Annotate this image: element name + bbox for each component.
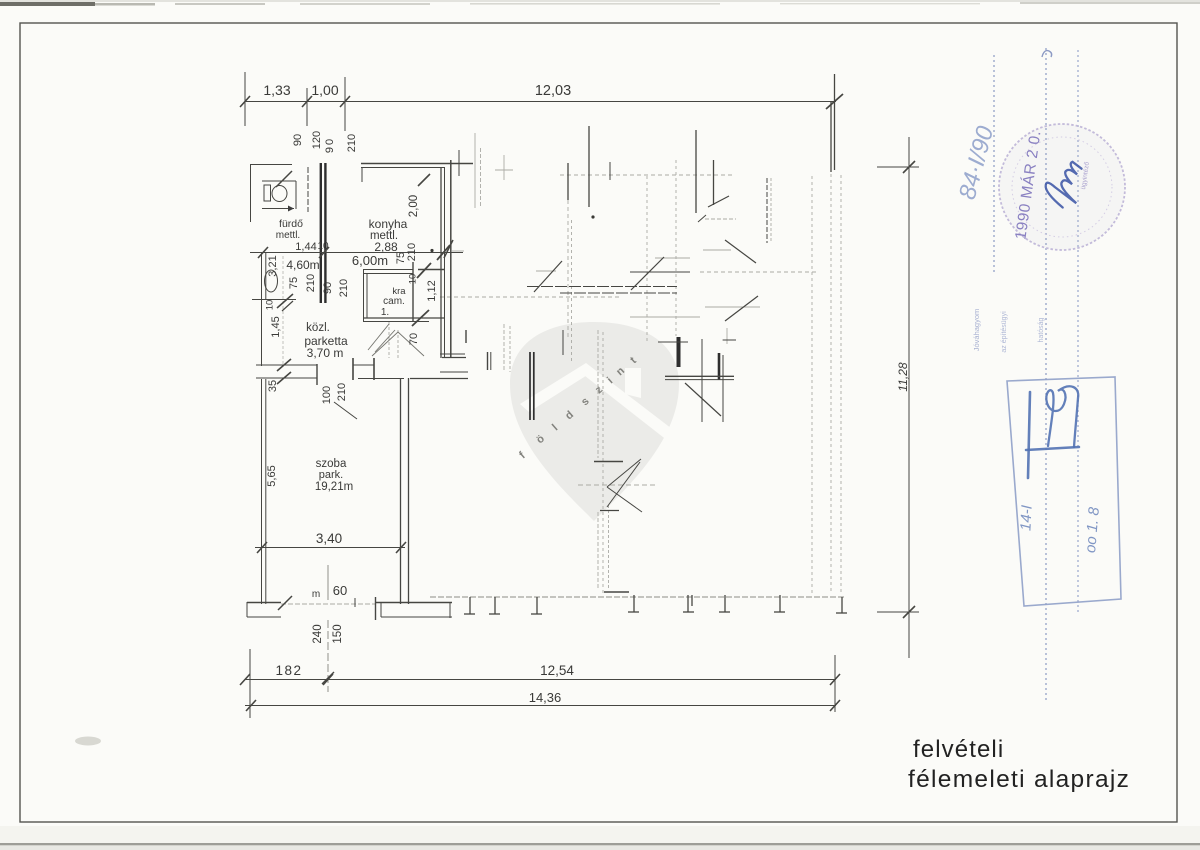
wire faint horizontal y307 xyxy=(705,306,760,308)
szoba top wall stub vertical xyxy=(316,364,318,385)
wire faint vertical x598 lower xyxy=(597,512,599,590)
stamps xyxy=(954,48,1125,700)
tick top x307 xyxy=(302,96,312,107)
szoba bottom wall left inner xyxy=(247,616,281,618)
tick top x835 xyxy=(826,94,843,109)
konyha top wall outer xyxy=(361,163,473,165)
v x563 xyxy=(562,330,564,355)
watermark text foldszint xyxy=(517,355,639,462)
konyha wall slash xyxy=(444,240,453,258)
svg-text:félemeleti alaprajz: félemeleti alaprajz xyxy=(908,766,1130,793)
handwriting big stroke xyxy=(1028,392,1030,478)
tick top x245 xyxy=(240,96,250,107)
svg-text:70: 70 xyxy=(408,333,420,345)
small tick x355 xyxy=(354,598,356,607)
konyha right wall outer xyxy=(450,160,452,358)
mid dark v x713 xyxy=(713,160,715,205)
title block xyxy=(908,736,1130,793)
stairs zigzag xyxy=(372,332,424,356)
svg-text:1,44: 1,44 xyxy=(295,241,316,253)
h y340 right xyxy=(723,339,736,341)
svg-text:m: m xyxy=(312,589,320,600)
szoba left wall inner xyxy=(265,379,267,604)
stub v x375 xyxy=(375,597,377,620)
dimension texts xyxy=(263,82,910,705)
extension top x345 xyxy=(344,77,346,131)
svg-text:3,70 m: 3,70 m xyxy=(307,346,344,360)
right dim dash top xyxy=(877,166,919,168)
szoba bottom wall right inner xyxy=(381,616,452,618)
szoba top wall line1 xyxy=(256,364,317,366)
svg-text:75: 75 xyxy=(288,277,300,289)
round stamp inner ring faint xyxy=(1012,137,1112,237)
wire faint vertical x283 xyxy=(282,256,284,364)
tick szoba top1 xyxy=(277,359,291,371)
tick 340 left xyxy=(257,542,267,553)
wire faint vertical x831 xyxy=(830,174,832,594)
tick b1 x245 xyxy=(240,674,250,685)
watermark pin xyxy=(510,322,679,521)
thick wall left of konyha line1 xyxy=(320,163,322,303)
left wall inner x265 xyxy=(265,253,267,300)
svg-text:210: 210 xyxy=(406,243,418,261)
wire faint vertical x812 xyxy=(811,176,813,594)
svg-text:mettl.: mettl. xyxy=(276,230,300,241)
wall top left bay xyxy=(250,164,292,166)
door slash bath xyxy=(277,294,293,308)
wc bottom line with arrow xyxy=(262,208,294,210)
mid dark v x610 xyxy=(609,162,611,180)
kamra right wall xyxy=(412,262,414,321)
wc right wall xyxy=(295,181,297,209)
svg-text:fürdő: fürdő xyxy=(279,218,303,230)
wire faint h y219 xyxy=(705,218,736,220)
wire faint v x841 xyxy=(840,175,842,593)
svg-text:hatóság: hatóság xyxy=(1038,317,1045,342)
wire faint vertical x676 xyxy=(675,160,677,336)
wire faint vertical x598 xyxy=(597,330,599,458)
svg-text:10: 10 xyxy=(408,274,419,285)
wall segment y269 right xyxy=(418,269,444,271)
round stamp circle xyxy=(999,124,1125,250)
wall h y354 short xyxy=(440,353,465,355)
wire faint horizontal y271 xyxy=(536,270,556,272)
wall y378 right of szoba xyxy=(410,378,468,380)
pin body xyxy=(510,322,679,521)
column t x842 xyxy=(836,597,847,613)
wire center line door szoba lower xyxy=(327,620,329,692)
svg-text:felvételi: felvételi xyxy=(913,736,1004,763)
door diag c2 xyxy=(607,487,642,512)
v x488 xyxy=(487,352,489,370)
svg-text:4,60m: 4,60m xyxy=(286,258,319,272)
wire faint vertical x603 xyxy=(602,332,604,594)
svg-text:1,45: 1,45 xyxy=(270,316,282,337)
right dim tick top xyxy=(903,161,915,173)
h y461 xyxy=(594,461,623,463)
tick top x345 xyxy=(340,96,350,107)
h y510 xyxy=(600,510,619,512)
svg-text:1,12: 1,12 xyxy=(426,280,438,301)
extension top x245 xyxy=(244,72,246,126)
column t x537 xyxy=(531,597,542,614)
stub v x466 xyxy=(465,330,467,343)
kamra left wall xyxy=(363,269,365,321)
tick konyha top xyxy=(418,174,430,186)
wire faint h y272 right xyxy=(700,271,818,273)
door slash wc xyxy=(276,171,292,187)
right dim tick bottom xyxy=(903,606,915,618)
svg-text:Jóváhagyom: Jóváhagyom xyxy=(972,309,981,352)
door slash szoba bottom xyxy=(278,596,292,610)
svg-text:3,21: 3,21 xyxy=(267,255,279,276)
h y342 xyxy=(658,341,688,343)
stub v x374 xyxy=(373,358,375,380)
wall h y357 xyxy=(442,357,466,359)
door diag g xyxy=(725,296,758,321)
svg-text:120: 120 xyxy=(311,131,323,149)
szoba bottom left cap xyxy=(246,602,248,617)
svg-text:3,40: 3,40 xyxy=(316,531,342,546)
svg-text:14-I: 14-I xyxy=(1017,505,1035,532)
tick szoba top2 xyxy=(277,372,291,384)
mid dashed v x767 xyxy=(766,178,768,243)
tick b1 x835 xyxy=(830,674,840,685)
tick b2 x250 xyxy=(246,700,256,711)
wall stub mid xyxy=(353,364,374,366)
toilet cistern xyxy=(264,185,271,201)
thick v x530 xyxy=(529,352,531,420)
wire faint horizontal y251 xyxy=(452,250,464,252)
wire faint vertical x510 xyxy=(509,326,511,372)
stairs diag1 xyxy=(368,324,389,350)
svg-text:konyha: konyha xyxy=(369,217,408,231)
thick v x719 xyxy=(718,353,721,380)
door diag f xyxy=(631,257,664,290)
dimension top line xyxy=(245,101,836,103)
svg-text:210: 210 xyxy=(346,134,358,152)
wc top wall xyxy=(262,180,296,182)
szoba bottom wall right outer xyxy=(375,602,452,604)
svg-text:6,00m: 6,00m xyxy=(352,253,388,268)
tick b2 x835 xyxy=(830,700,840,711)
svg-text:210: 210 xyxy=(305,274,317,292)
wire faint v x771 xyxy=(770,178,772,243)
stub v x353 xyxy=(352,358,354,380)
wire faint vertical x504 xyxy=(503,155,505,180)
wire faint vertical x568 xyxy=(567,200,569,340)
wall y372 right xyxy=(440,371,468,373)
tick y252 x444 xyxy=(437,245,450,260)
stamp box xyxy=(1007,377,1121,606)
svg-text:10: 10 xyxy=(317,241,329,252)
szoba right wall inner xyxy=(408,378,410,604)
tick b1 x328 xyxy=(323,674,333,685)
svg-text:1,33: 1,33 xyxy=(263,82,290,98)
tick 340 right xyxy=(396,542,406,553)
door diag e xyxy=(725,240,756,263)
door diagonal szoba top xyxy=(334,402,357,419)
stub v x381 xyxy=(380,603,382,617)
wire faint horizontal y485 xyxy=(578,484,657,486)
svg-text:cam.: cam. xyxy=(383,296,405,307)
stub v x459 xyxy=(458,150,460,176)
wire faint horizontal y297 xyxy=(440,296,620,298)
wire faint door threshold szoba xyxy=(281,603,375,605)
door diag a xyxy=(534,261,562,292)
svg-text:12,03: 12,03 xyxy=(535,83,571,99)
sink oval xyxy=(265,270,278,292)
mid dark v x589 xyxy=(588,126,590,207)
left wall outer x261 xyxy=(261,253,263,366)
tick y252 x324 xyxy=(319,247,329,258)
faint plan lines xyxy=(281,133,844,692)
svg-text:60: 60 xyxy=(333,583,347,598)
door diag c1 xyxy=(607,459,641,487)
tick center door xyxy=(322,672,334,684)
h y592 xyxy=(604,591,629,593)
wc arrowhead xyxy=(288,206,294,212)
extension top x835 xyxy=(834,74,836,170)
kamra top inner xyxy=(363,273,413,275)
bath divider line xyxy=(252,299,296,301)
dark plan lines xyxy=(240,72,919,718)
wire center line door szoba xyxy=(327,565,329,600)
h y376 double upper xyxy=(665,375,734,377)
wall left edge upper xyxy=(250,164,252,222)
konyha right wall l1 xyxy=(440,167,442,358)
svg-text:1.: 1. xyxy=(381,307,389,318)
extension top x307 xyxy=(306,88,308,126)
szoba top wall line2 xyxy=(256,377,317,379)
dimension line y252 xyxy=(250,252,463,254)
wire faint h y250 xyxy=(703,249,731,251)
h dashed y286 xyxy=(527,286,677,288)
svg-text:11,28: 11,28 xyxy=(896,362,910,391)
svg-text:az építésügyi: az építésügyi xyxy=(1001,311,1008,353)
blue dotted vertical line 3 xyxy=(1077,50,1079,615)
stairs diag2 xyxy=(375,330,395,352)
house roof white cutout right slope xyxy=(580,363,676,441)
svg-text:150: 150 xyxy=(332,624,344,643)
blue dotted vertical line 2 xyxy=(1045,48,1047,700)
column t x725 xyxy=(719,595,730,612)
kamra top outer xyxy=(363,269,413,271)
dimension 340 line xyxy=(255,547,405,549)
column t x634 xyxy=(628,595,639,612)
handwriting underline xyxy=(1026,447,1079,450)
h y272 xyxy=(630,271,690,273)
kamra bottom inner xyxy=(363,321,429,323)
dimension bottom line2 xyxy=(245,705,836,707)
blue hook top xyxy=(1042,51,1052,57)
svg-text:90: 90 xyxy=(324,137,336,153)
svg-text:19,21m: 19,21m xyxy=(315,481,353,493)
door diag b xyxy=(607,462,640,507)
svg-text:182: 182 xyxy=(275,663,302,678)
wire faint horizontal y597 bottom xyxy=(430,596,844,598)
wire faint vertical x504 lower xyxy=(503,324,505,370)
handwriting loops xyxy=(1046,386,1078,447)
v x491 xyxy=(490,352,492,370)
v x702 xyxy=(701,339,703,422)
slash y269 right xyxy=(417,263,431,278)
wire faint horizontal y340 xyxy=(722,339,736,341)
szoba left wall outer xyxy=(261,379,263,604)
signature xyxy=(1040,156,1090,212)
mid dark v x831 xyxy=(830,102,832,172)
wire faint vertical x480 xyxy=(480,148,482,206)
door slash bath 2 xyxy=(282,301,293,311)
wire faint vertical x389 stairs xyxy=(388,322,390,358)
node dot b xyxy=(430,249,433,252)
blue dotted vertical line 1 xyxy=(993,55,995,272)
svg-text:90: 90 xyxy=(322,282,334,294)
door diag h xyxy=(685,383,721,416)
svg-text:12,54: 12,54 xyxy=(540,663,574,678)
svg-text:210: 210 xyxy=(338,279,350,297)
svg-text:10: 10 xyxy=(265,300,276,311)
svg-text:35: 35 xyxy=(267,380,279,392)
tick y252 x263 xyxy=(258,247,268,258)
house roof white cutout left slope xyxy=(520,363,592,412)
stub v x450 xyxy=(449,602,451,618)
wire faint vertical x647 xyxy=(646,176,648,342)
wire faint horizontal y175 xyxy=(560,174,735,176)
chimney white cutout xyxy=(625,368,641,398)
thick wall left of konyha line2 xyxy=(324,163,326,303)
svg-text:90: 90 xyxy=(292,134,304,146)
wall y378 mid xyxy=(358,378,404,380)
extension bottom right xyxy=(834,655,836,712)
wire faint horizontal y170 xyxy=(495,169,513,171)
wire faint vertical x608 xyxy=(608,505,610,590)
wire faint vertical x475 xyxy=(474,133,476,208)
svg-text:210: 210 xyxy=(336,383,348,401)
svg-text:2,00: 2,00 xyxy=(408,195,420,217)
svg-text:közl.: közl. xyxy=(306,322,330,334)
thick v x534 xyxy=(533,352,535,420)
svg-text:1,00: 1,00 xyxy=(311,82,338,98)
mid dark v x696 xyxy=(695,130,697,213)
kamra left inner xyxy=(366,273,368,318)
svg-text:240: 240 xyxy=(312,624,324,643)
column t x495 xyxy=(489,597,500,614)
dimension bottom line1 xyxy=(245,679,836,681)
kamra bottom outer xyxy=(363,317,444,319)
wire faint vertical x571 xyxy=(571,220,573,362)
v x723 xyxy=(722,355,724,422)
toilet bowl xyxy=(272,186,287,202)
thick stub x678 xyxy=(677,337,681,367)
svg-text:park.: park. xyxy=(319,469,343,481)
right dim dash bottom xyxy=(877,611,919,613)
node dot a xyxy=(591,215,594,218)
wire faint vertical x398 stairs xyxy=(397,330,399,358)
h y379 double lower xyxy=(665,379,734,381)
door diag d xyxy=(708,196,729,207)
wire faint horizontal y317 xyxy=(630,316,700,318)
konyha right wall l2 xyxy=(444,167,446,358)
wire faint horizontal y258 xyxy=(655,257,690,259)
svg-text:100: 100 xyxy=(321,386,333,404)
szoba bottom wall left outer xyxy=(247,602,281,604)
konyha top wall inner xyxy=(361,167,444,169)
szoba right wall outer xyxy=(400,378,402,604)
wall dashed right of wc xyxy=(307,167,309,212)
right dim vertical xyxy=(908,137,910,658)
door diag d2 xyxy=(698,215,706,222)
h dashed y293 xyxy=(560,292,677,294)
konyha top left stub xyxy=(361,167,363,182)
wire faint vertical x727 xyxy=(726,328,728,344)
mid dark v x568 xyxy=(567,163,569,200)
column t x470 xyxy=(464,597,475,614)
svg-text:14,36: 14,36 xyxy=(529,690,562,705)
slash kamra bottom xyxy=(412,310,429,326)
column t x690 xyxy=(683,595,694,612)
column t x780 xyxy=(774,595,785,612)
extension bottom left xyxy=(249,649,251,718)
svg-text:5,65: 5,65 xyxy=(266,465,278,486)
